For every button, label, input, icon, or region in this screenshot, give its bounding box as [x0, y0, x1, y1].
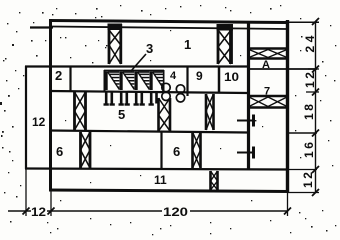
dim text 18 [302, 104, 316, 120]
label 4 [170, 70, 177, 82]
svg-text:2: 2 [55, 68, 62, 83]
machine unit 1 [105, 72, 120, 91]
leader line label 3 [131, 54, 146, 71]
column XC4 [81, 132, 91, 168]
svg-text:6: 6 [173, 144, 180, 159]
label 3 [146, 41, 153, 56]
dimension extension 16 line [288, 132, 317, 134]
svg-text:4: 4 [170, 70, 177, 82]
dim tick right y133 [312, 130, 319, 137]
wall top outer [49, 21, 288, 23]
machine legs 2 [119, 92, 130, 105]
svg-text:10: 10 [224, 70, 239, 84]
door mark T1 [237, 115, 254, 127]
machine legs 4 [149, 92, 157, 105]
machine unit 4 [150, 72, 163, 91]
room label 1 [184, 37, 191, 52]
machine legs 1 [104, 92, 115, 105]
dim text 12 upper [303, 72, 317, 88]
svg-text:12: 12 [32, 115, 46, 129]
machine unit 2 [120, 72, 135, 91]
wall H4 strip [50, 131, 248, 133]
dimension line bottom [8, 210, 287, 212]
dim tick bottom x287 [284, 208, 291, 215]
room label 2 [55, 68, 62, 83]
equipment circles group 2 [176, 85, 184, 102]
dimension extension x51 [50, 191, 52, 216]
wall top inner [52, 27, 287, 30]
svg-text:9: 9 [196, 69, 203, 83]
wall H2b room A bottom [249, 68, 317, 70]
svg-text:6: 6 [56, 144, 63, 159]
column XC3 [75, 92, 86, 130]
room label 12 [32, 115, 46, 129]
door mark T2 [237, 147, 254, 159]
dim text 16 [302, 142, 316, 158]
dim tick bottom x26 [23, 208, 30, 215]
svg-text:12: 12 [31, 205, 46, 219]
canopy stub top left [30, 26, 53, 28]
dim text 12 lower [301, 172, 315, 188]
wall right [286, 20, 289, 192]
wall H2 strip top [25, 65, 248, 67]
dim tick bottom x51 [48, 208, 55, 215]
room label 6a [56, 144, 63, 159]
label A [262, 59, 270, 71]
dim tick right y92 [306, 89, 319, 96]
room label 6b [173, 144, 180, 159]
dimension extension left x26 [25, 169, 27, 216]
dimension line right [315, 21, 317, 193]
column XC5 [193, 132, 201, 168]
wall room 9 left [186, 66, 188, 96]
column XC8 room 11 [211, 171, 218, 190]
dimension extension x287 [287, 192, 289, 216]
wall rooms-6 divider x161 [160, 131, 162, 169]
room label 5 [118, 107, 125, 122]
svg-text:11: 11 [154, 173, 167, 187]
svg-text:A: A [262, 59, 270, 71]
svg-text:5: 5 [118, 107, 125, 122]
dim tick right y69 [308, 66, 319, 73]
wall left [49, 19, 52, 191]
column XC1 top wall [108, 24, 123, 65]
svg-text:120: 120 [163, 205, 188, 219]
wall room 2 right [69, 66, 71, 92]
wall H5 room 11 top [25, 169, 317, 170]
window lattice A [249, 49, 287, 59]
room label 9 [196, 69, 203, 83]
room label 10 [224, 70, 239, 84]
svg-text:1: 1 [184, 37, 191, 52]
machine unit 3 [135, 72, 150, 91]
wall room 9-10 divider [218, 66, 221, 92]
dim tick right y169 [312, 166, 319, 173]
machine legs 3 [134, 92, 145, 105]
wall bottom [49, 190, 289, 192]
svg-text:3: 3 [146, 41, 153, 56]
svg-text:7: 7 [264, 86, 270, 98]
column XC7 [159, 98, 171, 131]
machine row box [104, 70, 164, 92]
dim text 120 bottom [163, 205, 188, 219]
column XC2 top wall [217, 24, 234, 64]
wall x247 main [247, 21, 250, 169]
dim text 24 [303, 35, 317, 52]
dim tick right y192 [288, 189, 319, 196]
label 7 [264, 86, 270, 98]
equipment circles group 1 [162, 83, 170, 100]
annex wall left [25, 66, 27, 169]
room label 11 [154, 173, 167, 187]
dim tick right y22 [312, 18, 319, 25]
dim text 12 bottom [31, 205, 46, 219]
window lattice 7 [249, 96, 287, 108]
column XC6 [206, 94, 214, 130]
dimension extension top right [288, 21, 319, 23]
wall H3 strip [50, 91, 248, 93]
